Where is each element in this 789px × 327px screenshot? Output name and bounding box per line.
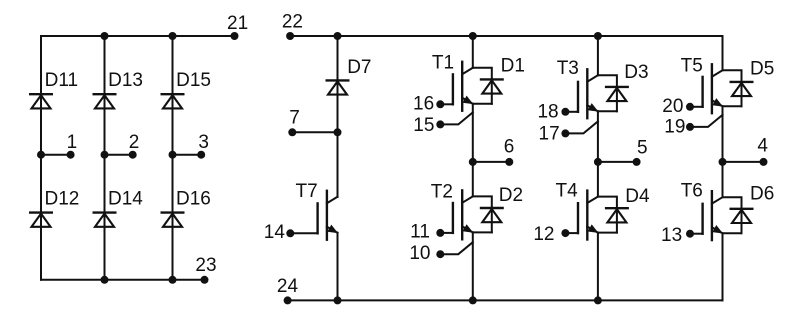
svg-text:D6: D6 bbox=[750, 184, 774, 205]
svg-text:T1: T1 bbox=[432, 53, 454, 74]
svg-text:23: 23 bbox=[195, 255, 216, 276]
svg-text:D4: D4 bbox=[625, 186, 650, 207]
svg-text:D16: D16 bbox=[176, 189, 211, 210]
svg-text:3: 3 bbox=[198, 132, 209, 153]
svg-text:T7: T7 bbox=[296, 181, 318, 202]
svg-text:D2: D2 bbox=[499, 185, 523, 206]
svg-text:T6: T6 bbox=[681, 180, 703, 201]
svg-text:15: 15 bbox=[413, 115, 434, 136]
svg-text:D11: D11 bbox=[45, 70, 78, 91]
svg-text:16: 16 bbox=[413, 94, 434, 115]
svg-text:T5: T5 bbox=[681, 56, 703, 77]
svg-text:D13: D13 bbox=[108, 70, 143, 91]
svg-text:T2: T2 bbox=[431, 182, 453, 203]
svg-text:2: 2 bbox=[129, 132, 140, 153]
svg-text:D12: D12 bbox=[45, 189, 80, 210]
svg-text:18: 18 bbox=[537, 102, 558, 123]
svg-text:D1: D1 bbox=[501, 55, 525, 76]
svg-text:13: 13 bbox=[661, 225, 682, 246]
svg-text:19: 19 bbox=[664, 117, 685, 138]
svg-text:D14: D14 bbox=[108, 189, 143, 210]
svg-text:D3: D3 bbox=[624, 62, 648, 83]
svg-text:1: 1 bbox=[67, 132, 78, 153]
svg-text:22: 22 bbox=[282, 12, 303, 33]
svg-text:17: 17 bbox=[539, 124, 560, 145]
svg-text:7: 7 bbox=[289, 108, 300, 129]
svg-text:D7: D7 bbox=[347, 57, 371, 78]
svg-text:11: 11 bbox=[410, 222, 430, 243]
svg-text:T4: T4 bbox=[556, 181, 579, 202]
svg-text:D5: D5 bbox=[750, 58, 774, 79]
svg-text:6: 6 bbox=[504, 137, 515, 158]
svg-text:10: 10 bbox=[409, 243, 430, 264]
svg-text:5: 5 bbox=[637, 137, 648, 158]
svg-text:12: 12 bbox=[533, 224, 554, 245]
svg-text:24: 24 bbox=[277, 276, 299, 297]
svg-text:T3: T3 bbox=[557, 58, 579, 79]
svg-text:4: 4 bbox=[757, 136, 768, 157]
svg-text:21: 21 bbox=[227, 13, 248, 34]
svg-text:D15: D15 bbox=[176, 70, 211, 91]
svg-text:14: 14 bbox=[264, 222, 286, 243]
svg-text:20: 20 bbox=[662, 96, 683, 117]
